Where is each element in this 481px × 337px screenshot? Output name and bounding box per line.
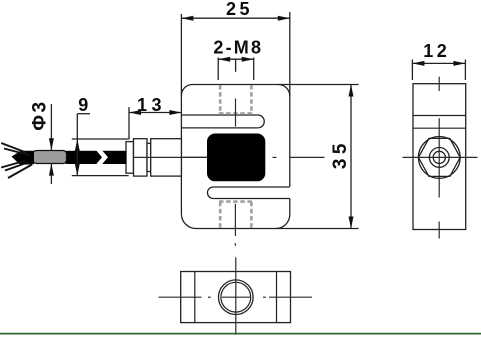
dimension 13 right arrow: [169, 110, 181, 115]
gland washer circle: [418, 137, 460, 179]
bottom view inner circle: [221, 282, 251, 312]
bottom view horizontal centerline segments: [159, 296, 313, 298]
dimension 25 line: [181, 17, 289, 19]
body horizontal centerline left segment: [128, 156, 208, 158]
dimension 25 right arrow: [278, 16, 290, 21]
bottom threaded hole 2-M8 hidden lines (dashed): [219, 202, 253, 228]
side view top center tick: [438, 77, 440, 91]
front view body bottom edge with 35-dim bottom extension line: [196, 228, 359, 230]
body horizontal centerline right tick: [290, 156, 325, 158]
front view body right edge lower segment: [289, 199, 291, 215]
dimension 2-M8 line: [218, 58, 254, 60]
bottom view left inner line: [194, 272, 196, 323]
top threaded hole 2-M8 hidden lines (dashed): [219, 85, 253, 114]
lower S-slot bottom edge: [213, 198, 290, 200]
dimension 35 down arrow: [349, 217, 354, 229]
green separator line: [0, 333, 481, 335]
bottom view right inner line: [276, 272, 278, 323]
svg-text:13: 13: [137, 95, 166, 115]
svg-text:2-M8: 2-M8: [213, 38, 263, 58]
svg-text:9: 9: [78, 95, 88, 115]
lower S-slot rounded left end: [207, 187, 213, 199]
svg-text:25: 25: [226, 0, 253, 19]
centerline dash between views: [234, 243, 236, 246]
dimension 9 leader: [77, 113, 90, 115]
cable gland band B: [134, 139, 148, 176]
wire 2: [4, 149, 29, 156]
gland inner circle: [433, 151, 445, 163]
front view body right edge upper segment with 25-dim extension line: [289, 12, 291, 187]
dimension 13 line: [129, 112, 181, 114]
upper S-slot rounded right end: [258, 115, 264, 128]
body horizontal centerline short dash right of pad: [273, 156, 277, 158]
front view body bottom-right corner arc: [276, 215, 290, 229]
frayed bundle wedge: [12, 151, 35, 165]
side view outline: [413, 84, 466, 230]
upper S-slot top edge: [181, 114, 257, 116]
front view body top-left corner arc: [181, 85, 192, 96]
gland middle circle: [429, 148, 449, 168]
cable gland band D (body nut): [151, 139, 182, 176]
cable break symbol: [98, 149, 105, 166]
front view body top edge with 35-dim top extension line: [192, 84, 358, 86]
svg-text:Φ3: Φ3: [29, 99, 50, 130]
bottom hole centerline: [234, 204, 236, 236]
dimension 2-M8 extension lines: [217, 58, 219, 81]
side view horizontal centerline: [403, 156, 478, 158]
centerline through gland: [134, 156, 207, 158]
dimension 35 up arrow: [349, 85, 354, 97]
dimension phi3 lower leader with up arrow: [50, 164, 52, 184]
dimension 2-M8 left arrow: [218, 57, 230, 62]
dimension 25 left arrow: [181, 16, 193, 21]
dimension phi3 upper leader with down arrow: [50, 104, 52, 150]
svg-text:12: 12: [423, 41, 450, 61]
gland hex nut: [418, 138, 460, 176]
dimension 2-M8 right arrow: [242, 57, 254, 62]
cable gland band A: [126, 142, 134, 174]
side view slot line 1: [413, 115, 466, 117]
upper S-slot bottom edge: [181, 127, 257, 129]
top hole centerline: [235, 99, 237, 127]
side view slot line 2: [413, 127, 466, 129]
front view body bottom-left corner arc: [181, 214, 196, 228]
cable (black): [66, 151, 127, 164]
front view body left edge with 25-dim extension line: [180, 14, 182, 214]
dimension 13 left arrow: [129, 110, 141, 115]
dimension 12 right arrow: [453, 61, 465, 66]
bottom view outer circle: [219, 280, 254, 315]
black gauge pad: [207, 134, 265, 182]
bottom view vertical centerline: [235, 257, 237, 335]
cable gland band C (narrow groove): [147, 143, 151, 171]
dimension 9 down arrow: [75, 164, 80, 176]
front view body top-right corner arc: [278, 85, 290, 97]
wire 5: [8, 165, 32, 179]
dimension 35 line: [350, 85, 352, 229]
dimension 9 up arrow: [75, 139, 80, 151]
dimension 2-M8 center tick: [235, 59, 237, 72]
dimension 9 extension lines: [72, 138, 129, 140]
dimension 12 line: [412, 62, 465, 64]
dimension 12 extension lines: [411, 60, 413, 81]
svg-text:35: 35: [330, 139, 351, 169]
side view vertical centerline through gland: [438, 118, 440, 197]
wire 3: [1, 161, 26, 168]
wire 4: [5, 162, 29, 171]
lower S-slot top edge: [213, 186, 290, 188]
bottom view outline: [181, 272, 291, 323]
dimension 12 left arrow: [412, 61, 424, 66]
side view bottom center tick: [438, 222, 440, 239]
dimension 13 left extension line: [128, 107, 130, 139]
wire 1: [1, 143, 26, 153]
cable sleeve (gray): [33, 151, 67, 164]
